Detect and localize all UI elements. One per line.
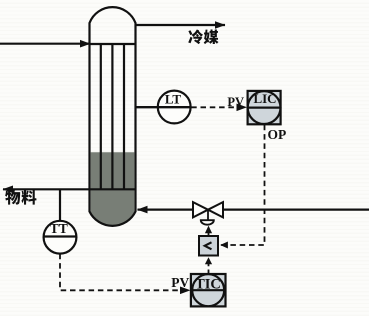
wire: LT tap xyxy=(136,106,161,108)
tube 3 xyxy=(123,44,125,190)
control valve body xyxy=(193,202,223,217)
label 物料 xyxy=(5,190,36,205)
vessel upper tube sheet xyxy=(90,43,136,45)
svg-text:TIC: TIC xyxy=(195,277,221,293)
signal: TIC to selector xyxy=(208,262,210,274)
svg-text:PV: PV xyxy=(171,275,189,290)
pipe: valve to vessel xyxy=(138,209,194,211)
level transmitter LT xyxy=(158,91,191,124)
pipe: valve inlet from right xyxy=(223,209,369,211)
svg-text:TT: TT xyxy=(50,221,68,236)
wire: feed inlet line (top left) xyxy=(0,43,90,45)
signal: LT to LIC xyxy=(191,106,246,108)
svg-text:LIC: LIC xyxy=(253,91,276,106)
wire: coolant outlet line xyxy=(136,24,226,26)
vessel: shell-and-tube exchanger shell xyxy=(90,7,136,212)
label 冷媒 xyxy=(188,29,218,44)
controller TIC xyxy=(191,274,226,306)
valve actuator (diaphragm) xyxy=(201,220,214,225)
pipe: product outlet with lower tube sheet xyxy=(3,188,136,190)
vessel bottom dome xyxy=(90,212,136,226)
valve stem xyxy=(207,210,209,221)
low selector xyxy=(199,236,218,256)
signal: TT to TIC xyxy=(60,254,190,290)
svg-text:OP: OP xyxy=(268,127,287,142)
temperature transmitter TT xyxy=(44,221,77,254)
signal: LIC output to selector xyxy=(221,125,265,245)
controller LIC xyxy=(248,91,281,124)
wire: TT tap xyxy=(59,189,61,221)
tube 1 xyxy=(100,44,102,190)
svg-text:LT: LT xyxy=(165,92,181,107)
tube 2 xyxy=(111,44,113,190)
signal: selector to valve xyxy=(208,230,210,236)
svg-text:PV: PV xyxy=(227,95,244,109)
vessel liquid holdup (gray) xyxy=(91,152,135,225)
